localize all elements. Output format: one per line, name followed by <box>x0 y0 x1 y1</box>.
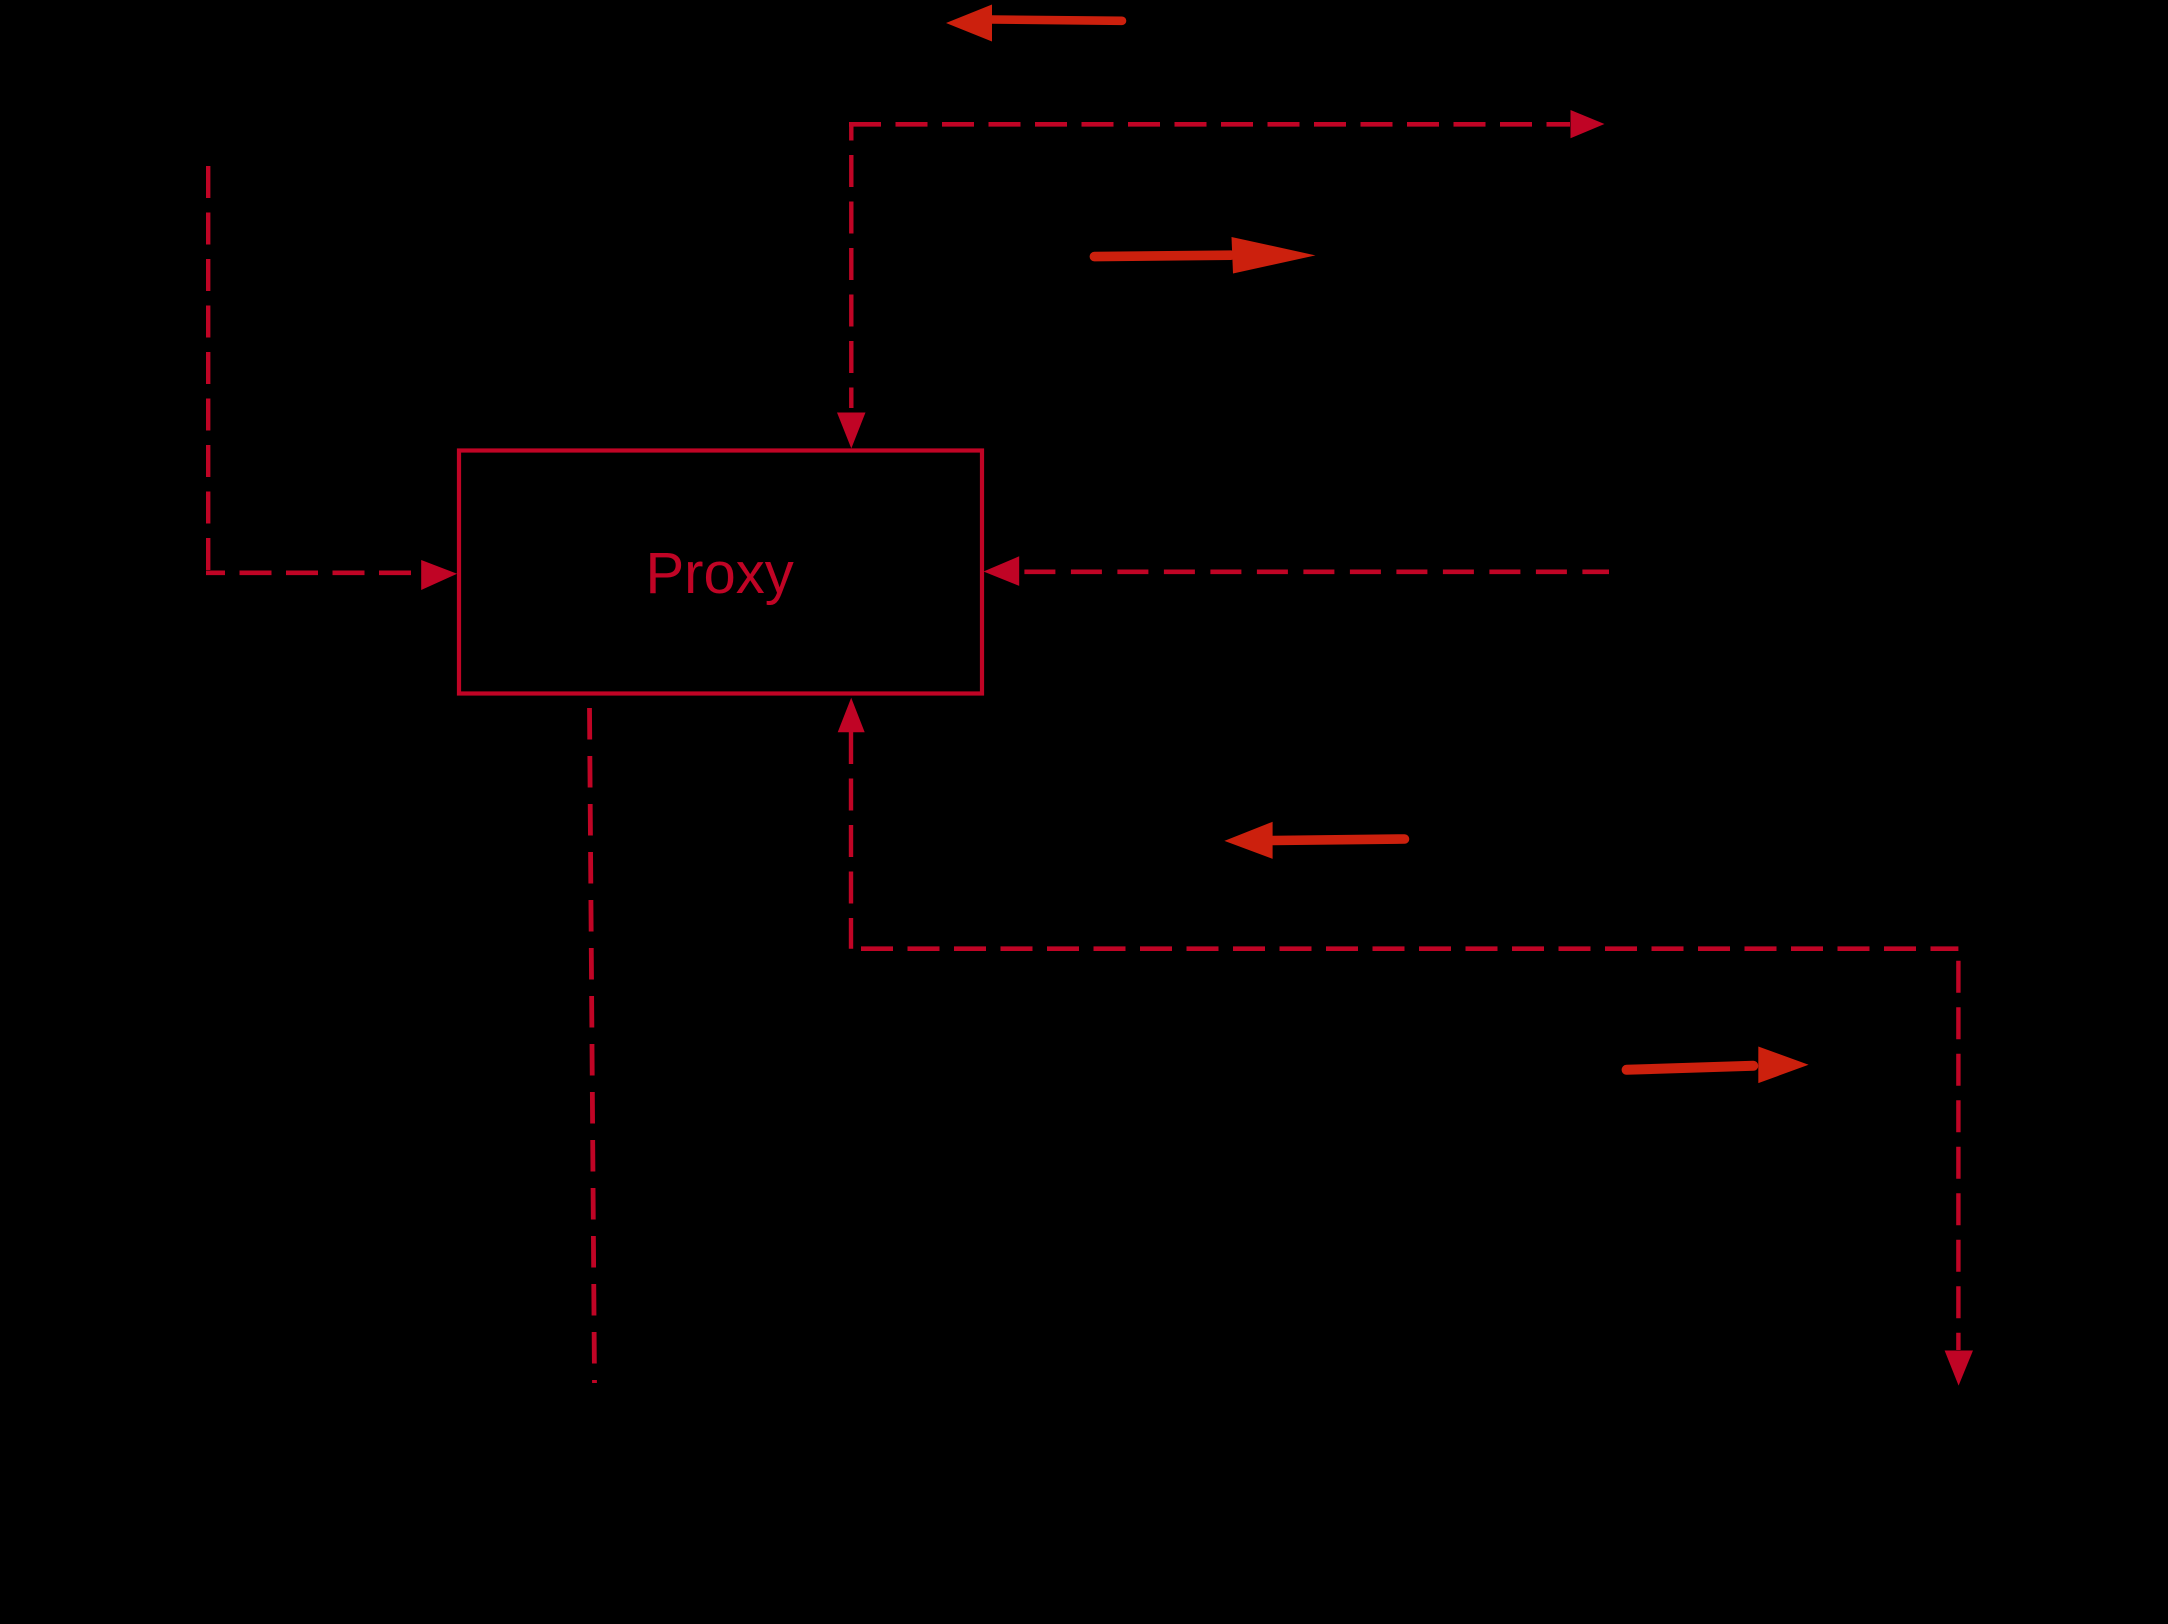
arrowhead right onto Proxy left edge <box>421 560 457 590</box>
arrowhead down at bottom right end <box>1945 1351 1973 1386</box>
solid annotation arrow (middle, pointing left, y=840) <box>1224 822 1404 859</box>
svg-text:Proxy: Proxy <box>646 541 794 606</box>
solid annotation arrow (top, pointing left) <box>946 5 1122 42</box>
Proxy box <box>459 451 982 694</box>
wire: dashed vertical on far left (x=208) <box>206 166 210 573</box>
wire: dashed vertical from corner (1958,949) down <box>1956 949 1960 1350</box>
wire: dashed horizontal from Proxy right edge to the right (y=572) <box>1024 569 1609 574</box>
wire: dashed horizontal from (851,949) to (1958,949) <box>851 946 1958 951</box>
wire: dashed horizontal into Proxy left edge (y=573) <box>206 570 421 575</box>
solid annotation arrow (upper middle, pointing right) <box>1094 237 1315 274</box>
solid annotation arrow (bottom right, pointing right, y=1066) <box>1627 1047 1809 1084</box>
arrowhead right at end of top dashed wire <box>1571 110 1605 138</box>
wire: dashed vertical below Proxy bottom (x=590, slight hand-drawn slant) <box>590 708 595 1383</box>
wire: dashed vertical from top corner down into Proxy top (node at 851,123) <box>849 123 853 409</box>
wire: dashed vertical from below up-arrow to corner (851,949) <box>849 732 853 949</box>
arrowhead up onto Proxy bottom edge <box>838 698 865 733</box>
arrowhead left onto Proxy right edge <box>984 556 1020 586</box>
wire: dashed horizontal from corner (851,123) to the right <box>849 122 1570 127</box>
arrowhead down onto Proxy top edge <box>837 413 866 449</box>
